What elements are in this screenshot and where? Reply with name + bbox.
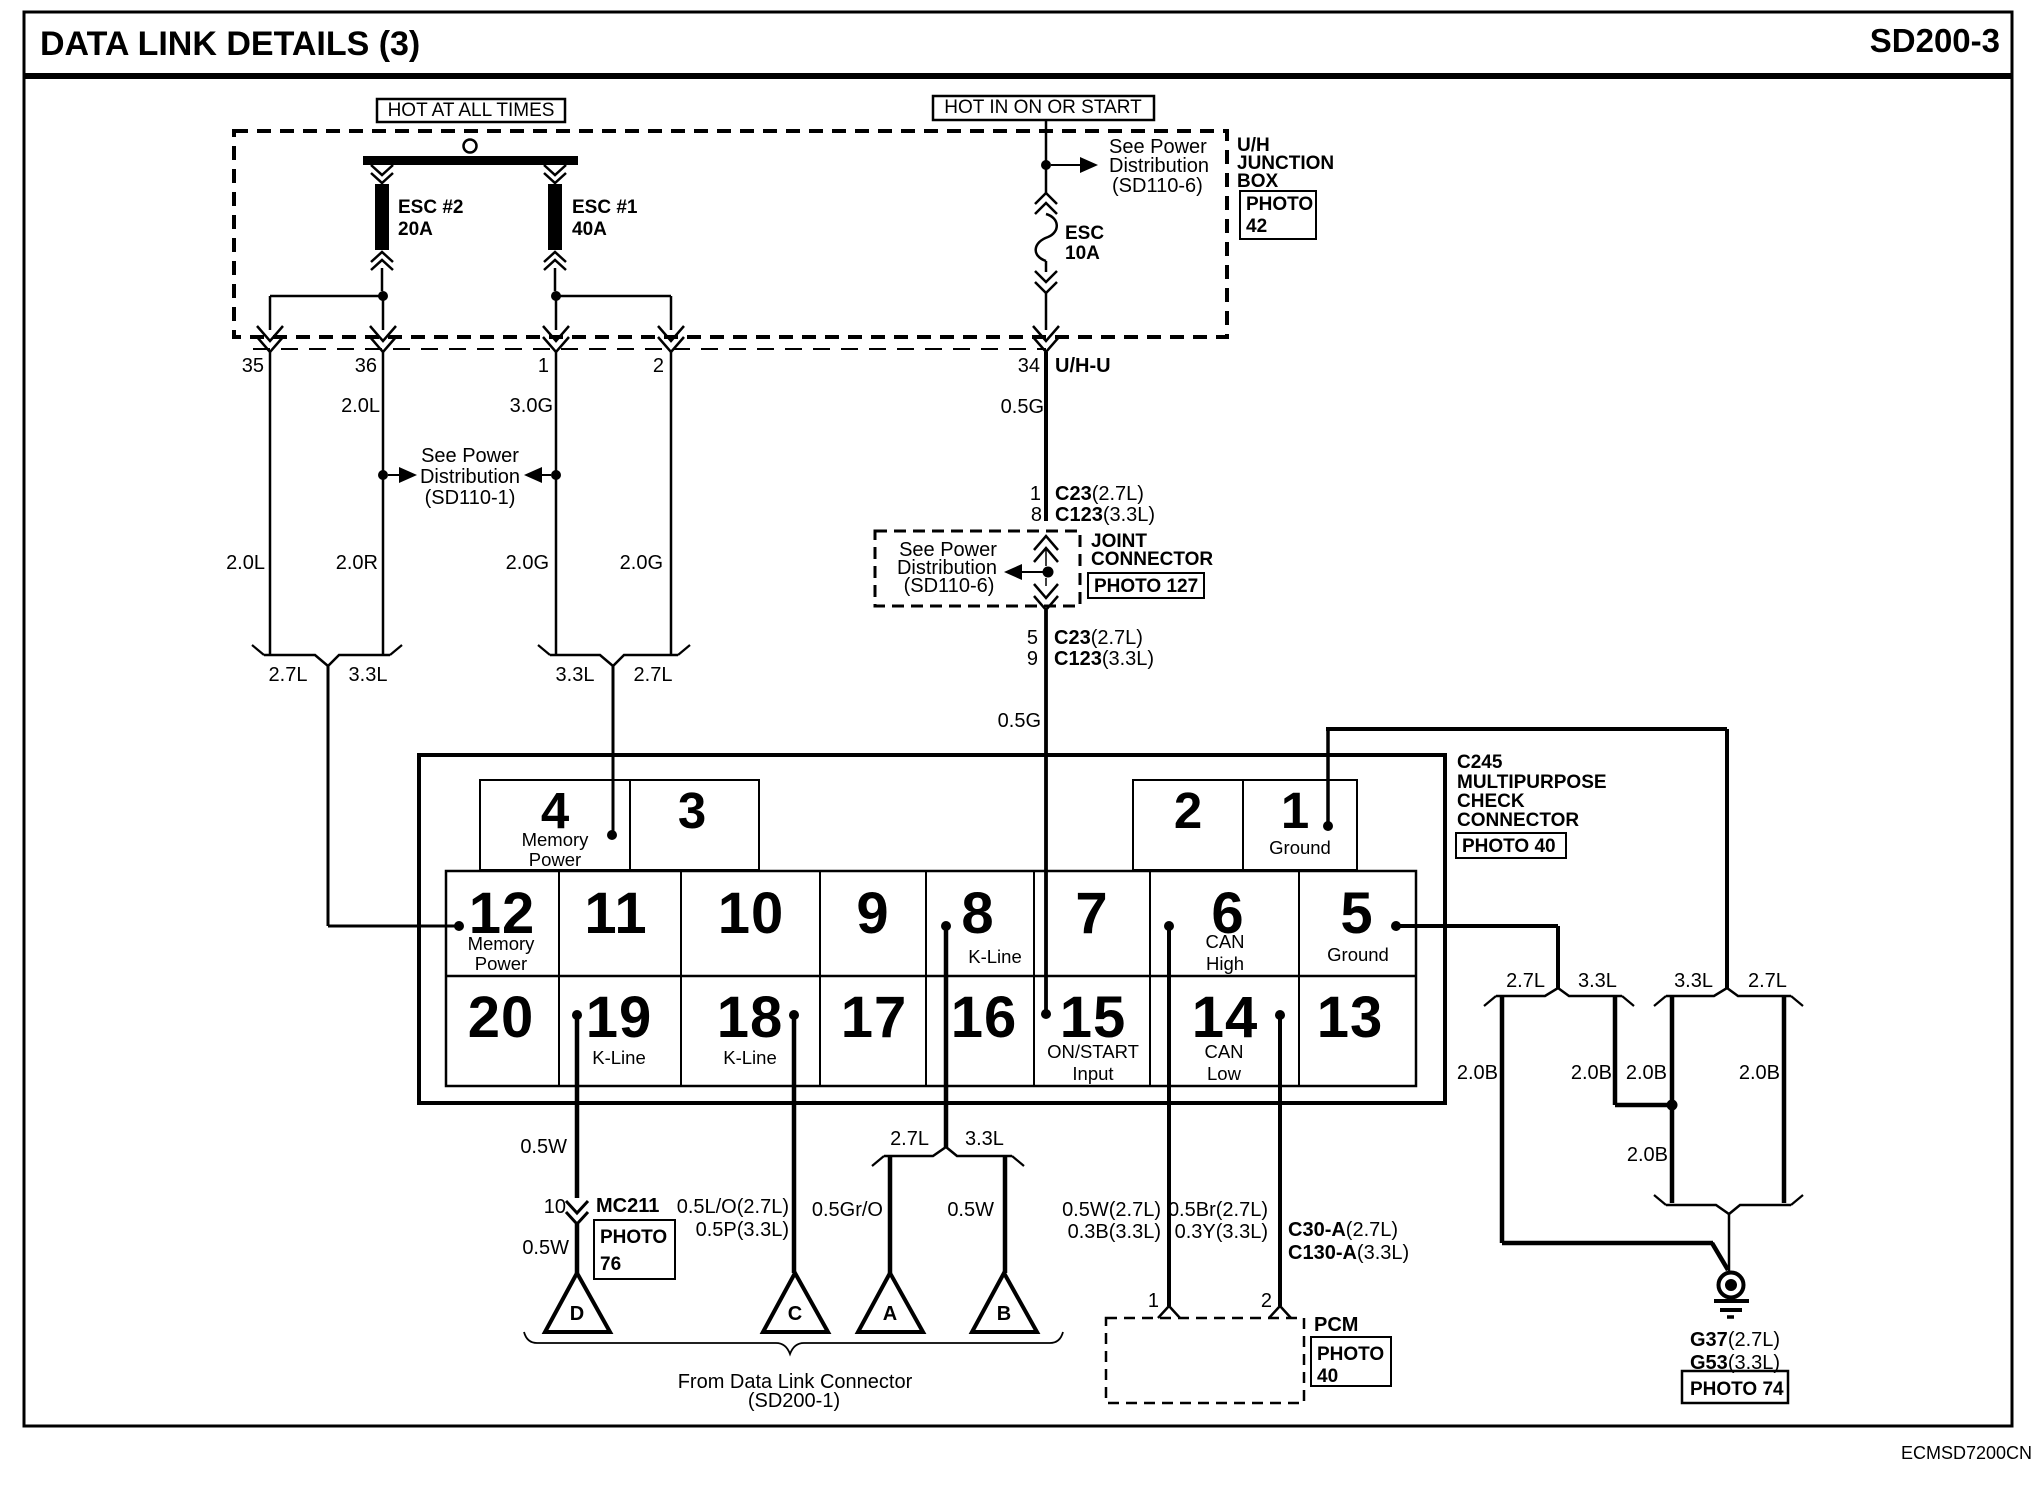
svg-text:2.0L: 2.0L: [226, 552, 265, 574]
svg-text:G37(2.7L): G37(2.7L): [1690, 1329, 1780, 1351]
svg-text:CAN: CAN: [1204, 1041, 1243, 1062]
svg-text:CONNECTOR: CONNECTOR: [1457, 810, 1579, 831]
svg-text:3.0G: 3.0G: [510, 395, 553, 417]
svg-text:1: 1: [1148, 1290, 1159, 1312]
svg-text:Memory: Memory: [522, 829, 590, 850]
svg-text:2.0B: 2.0B: [1626, 1062, 1667, 1084]
svg-text:PHOTO 127: PHOTO 127: [1094, 576, 1198, 597]
svg-text:DATA LINK DETAILS (3): DATA LINK DETAILS (3): [40, 25, 420, 63]
svg-text:0.5Gr/O: 0.5Gr/O: [812, 1199, 883, 1221]
svg-text:19: 19: [586, 985, 653, 1050]
svg-text:ECMSD7200CN: ECMSD7200CN: [1901, 1443, 2032, 1463]
svg-text:B: B: [997, 1303, 1011, 1325]
svg-text:0.5G: 0.5G: [998, 710, 1041, 732]
svg-text:5: 5: [1340, 881, 1373, 946]
svg-text:PCM: PCM: [1314, 1314, 1358, 1336]
svg-text:7: 7: [1075, 881, 1108, 946]
svg-text:5: 5: [1027, 627, 1038, 649]
svg-text:D: D: [570, 1303, 584, 1325]
svg-text:0.5W: 0.5W: [522, 1237, 569, 1259]
svg-text:PHOTO 74: PHOTO 74: [1690, 1379, 1784, 1400]
svg-text:34: 34: [1018, 355, 1040, 377]
svg-text:0.5L/O(2.7L): 0.5L/O(2.7L): [677, 1196, 789, 1218]
svg-text:A: A: [883, 1303, 897, 1325]
svg-text:2.0B: 2.0B: [1571, 1062, 1612, 1084]
svg-text:HOT IN ON OR START: HOT IN ON OR START: [944, 97, 1142, 118]
svg-text:2.7L: 2.7L: [890, 1128, 929, 1150]
svg-text:36: 36: [355, 355, 377, 377]
svg-text:Memory: Memory: [468, 933, 536, 954]
svg-text:K-Line: K-Line: [723, 1047, 776, 1068]
svg-text:C23(2.7L): C23(2.7L): [1055, 483, 1144, 505]
svg-text:3: 3: [678, 782, 706, 839]
svg-text:C: C: [788, 1303, 802, 1325]
svg-text:2.7L: 2.7L: [1506, 970, 1545, 992]
svg-text:11: 11: [584, 881, 647, 946]
svg-text:1: 1: [538, 355, 549, 377]
svg-text:40A: 40A: [572, 219, 607, 240]
svg-text:Ground: Ground: [1327, 944, 1389, 965]
svg-text:35: 35: [242, 355, 264, 377]
svg-text:K-Line: K-Line: [592, 1047, 645, 1068]
svg-text:10: 10: [544, 1196, 566, 1218]
svg-text:ON/START: ON/START: [1047, 1041, 1139, 1062]
svg-text:C123(3.3L): C123(3.3L): [1055, 504, 1155, 526]
svg-text:C130-A(3.3L): C130-A(3.3L): [1288, 1242, 1409, 1264]
svg-text:2: 2: [1261, 1290, 1272, 1312]
svg-text:9: 9: [1027, 648, 1038, 670]
svg-text:MC211: MC211: [596, 1195, 659, 1217]
svg-text:42: 42: [1246, 216, 1267, 237]
svg-text:ESC #2: ESC #2: [398, 197, 463, 218]
svg-text:2: 2: [653, 355, 664, 377]
svg-text:0.5Br(2.7L): 0.5Br(2.7L): [1168, 1199, 1268, 1221]
svg-text:C30-A(2.7L): C30-A(2.7L): [1288, 1219, 1398, 1241]
svg-text:40: 40: [1317, 1366, 1338, 1387]
svg-text:CAN: CAN: [1205, 931, 1244, 952]
svg-text:SD200-3: SD200-3: [1870, 22, 2000, 59]
svg-text:0.5P(3.3L): 0.5P(3.3L): [696, 1219, 789, 1241]
svg-text:0.5W(2.7L): 0.5W(2.7L): [1062, 1199, 1161, 1221]
svg-text:2.7L: 2.7L: [269, 664, 308, 686]
svg-text:2.0G: 2.0G: [620, 552, 663, 574]
svg-text:3.3L: 3.3L: [1578, 970, 1617, 992]
svg-text:ESC: ESC: [1065, 223, 1104, 244]
svg-text:C23(2.7L): C23(2.7L): [1054, 627, 1143, 649]
svg-text:See Power: See Power: [421, 445, 519, 467]
svg-text:17: 17: [841, 985, 908, 1050]
svg-text:9: 9: [856, 881, 889, 946]
svg-text:8: 8: [961, 881, 994, 946]
svg-text:PHOTO: PHOTO: [600, 1227, 667, 1248]
svg-text:C245: C245: [1457, 752, 1503, 773]
svg-text:(SD110-6): (SD110-6): [1112, 175, 1203, 197]
svg-text:16: 16: [951, 985, 1018, 1050]
svg-text:K-Line: K-Line: [968, 946, 1021, 967]
svg-text:10A: 10A: [1065, 243, 1100, 264]
svg-text:76: 76: [600, 1254, 621, 1275]
svg-text:2.7L: 2.7L: [634, 664, 673, 686]
svg-text:(SD110-6): (SD110-6): [904, 575, 995, 597]
svg-text:Power: Power: [475, 953, 527, 974]
svg-text:CHECK: CHECK: [1457, 791, 1525, 812]
svg-text:0.5G: 0.5G: [1001, 396, 1044, 418]
svg-text:3.3L: 3.3L: [965, 1128, 1004, 1150]
svg-text:1: 1: [1281, 782, 1309, 839]
svg-text:2.0L: 2.0L: [341, 395, 380, 417]
svg-text:C123(3.3L): C123(3.3L): [1054, 648, 1154, 670]
svg-text:2.0R: 2.0R: [336, 552, 378, 574]
svg-text:MULTIPURPOSE: MULTIPURPOSE: [1457, 772, 1607, 793]
svg-text:(SD110-1): (SD110-1): [425, 487, 516, 509]
svg-text:13: 13: [1317, 985, 1384, 1050]
svg-text:U/H-U: U/H-U: [1055, 355, 1111, 377]
svg-text:2.0B: 2.0B: [1457, 1062, 1498, 1084]
svg-text:Ground: Ground: [1269, 837, 1331, 858]
svg-text:Distribution: Distribution: [1109, 155, 1209, 177]
svg-text:2.7L: 2.7L: [1748, 970, 1787, 992]
svg-text:High: High: [1206, 953, 1244, 974]
svg-text:0.3B(3.3L): 0.3B(3.3L): [1068, 1221, 1161, 1243]
svg-text:3.3L: 3.3L: [556, 664, 595, 686]
svg-text:Distribution: Distribution: [420, 466, 520, 488]
svg-text:PHOTO: PHOTO: [1317, 1344, 1384, 1365]
svg-text:2.0B: 2.0B: [1739, 1062, 1780, 1084]
svg-text:20: 20: [468, 985, 535, 1050]
svg-text:20A: 20A: [398, 219, 433, 240]
svg-text:2.0B: 2.0B: [1627, 1144, 1668, 1166]
svg-text:0.5W: 0.5W: [520, 1136, 567, 1158]
svg-text:0.3Y(3.3L): 0.3Y(3.3L): [1175, 1221, 1268, 1243]
svg-text:ESC #1: ESC #1: [572, 197, 638, 218]
svg-text:BOX: BOX: [1237, 171, 1279, 192]
svg-text:2.0G: 2.0G: [506, 552, 549, 574]
svg-text:0.5W: 0.5W: [947, 1199, 994, 1221]
svg-text:2: 2: [1174, 782, 1202, 839]
svg-text:Input: Input: [1072, 1063, 1113, 1084]
svg-text:PHOTO: PHOTO: [1246, 194, 1313, 215]
svg-text:3.3L: 3.3L: [349, 664, 388, 686]
svg-text:Low: Low: [1207, 1063, 1242, 1084]
svg-text:HOT AT ALL TIMES: HOT AT ALL TIMES: [388, 100, 555, 121]
svg-text:3.3L: 3.3L: [1674, 970, 1713, 992]
svg-text:CONNECTOR: CONNECTOR: [1091, 549, 1213, 570]
svg-text:1: 1: [1030, 483, 1041, 505]
svg-text:8: 8: [1031, 504, 1042, 526]
svg-text:18: 18: [717, 985, 784, 1050]
svg-text:PHOTO 40: PHOTO 40: [1462, 836, 1556, 857]
svg-text:Power: Power: [529, 849, 581, 870]
svg-text:(SD200-1): (SD200-1): [748, 1390, 840, 1412]
svg-text:10: 10: [718, 881, 785, 946]
